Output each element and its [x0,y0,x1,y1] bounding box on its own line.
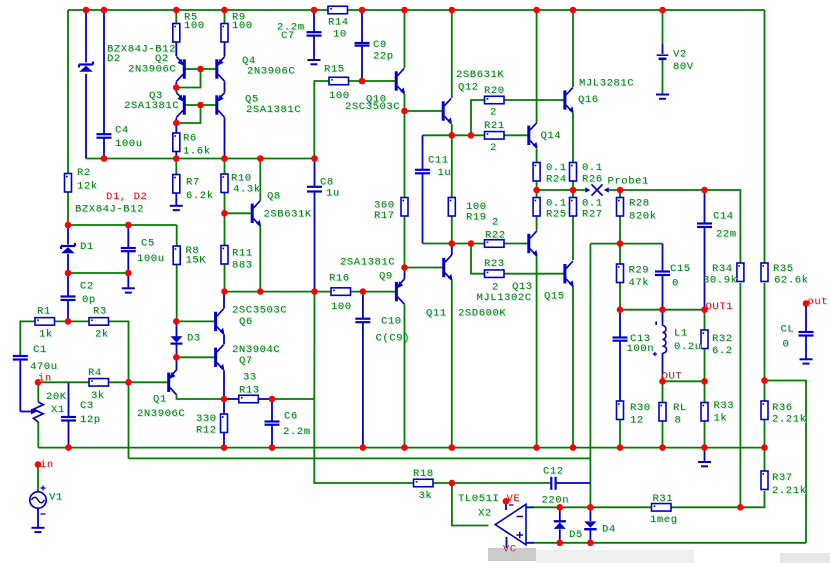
label Q4 [242,55,257,68]
resistor R18 3k [414,479,434,487]
junction top rail Q16 col [570,7,577,14]
wire C8 bottom lead [314,192,316,292]
junction top rail Q14 col [533,7,540,14]
svg-text:820k: 820k [629,211,657,223]
wire R17 column [404,111,406,198]
svg-text:2SA1381C: 2SA1381C [246,104,301,116]
resistor R8 15K [173,246,180,265]
wire Q14 collector to top rail [536,10,538,123]
svg-text:2N3906C: 2N3906C [128,64,176,76]
label C2 [80,281,95,294]
svg-text:0: 0 [672,277,679,289]
svg-text:C7: C7 [281,30,295,42]
junction rail1 Q11 [449,444,456,451]
label C1 [33,344,48,357]
svg-text:330: 330 [196,413,217,425]
label 15K [186,255,208,268]
resistor R32 6.2 [701,330,708,349]
wire R1 right to R3 left [55,320,90,322]
label R25 [546,209,568,222]
label D2 [107,53,122,66]
svg-text:C11: C11 [428,154,449,166]
svg-text:R11: R11 [232,247,253,259]
label C8 [320,177,335,190]
wire Q6 base wire [177,320,215,322]
label C11 [428,154,450,167]
svg-text:R6: R6 [183,133,197,145]
label R7 [186,176,201,189]
op-amp X2 TL051I [495,504,534,545]
wire row y=243.6 R29 C15 [590,243,662,245]
svg-text:R34: R34 [712,263,733,275]
wire X1 wiper [20,411,31,413]
label 2.21k [772,414,808,427]
label R17 [374,210,396,223]
label D5 [569,529,584,542]
resistor RL 8 [659,403,666,422]
label Q7 [239,355,254,368]
resistor R4 3k [89,379,109,387]
resistor R36 2.21k [761,401,768,420]
wire C10 top lead [362,292,364,318]
wire node row y=225 [68,224,177,226]
wire D2 lower lead to rail2 [85,74,87,159]
wire C9 top lead [361,10,363,43]
junction Q3 Q5 bases [197,102,204,109]
junction top rail Q10 col [401,7,408,14]
junction C10 R16 row [360,288,367,295]
wire Q7 base wire [177,356,215,358]
wire R33 top lead [704,381,706,402]
resistor R28 820k [617,198,624,217]
junction rail1 Q9 [401,444,408,451]
wire base jumper to Q2 collector [176,69,200,88]
label 22m [716,228,738,241]
source V1 sine [30,486,46,515]
svg-text:0.1: 0.1 [582,162,603,174]
wire R3 column to rail2 [128,382,130,458]
diode D5 [554,521,566,529]
label Q16 [578,94,600,107]
inductor L1 0.2u [653,322,667,357]
junction Q10 emitter Q12 base [401,108,408,115]
svg-text:C1: C1 [33,344,47,356]
junction in2 node [35,461,42,468]
wire R23 left lead up [471,244,485,274]
wire row y=135 C11 branch [423,134,485,136]
resistor R10 4.3k [221,174,228,193]
label R37 [772,472,794,485]
wire feedback column to R18 row [314,399,413,483]
transistor Q11 2SD600K [444,255,453,281]
junction rail1 R30 [617,444,624,451]
wire C6 bottom lead [271,425,273,448]
svg-text:Q1: Q1 [153,394,167,406]
resistor R14 10 [328,6,348,14]
junction rail1 RL [659,444,666,451]
svg-text:Q8: Q8 [267,191,281,203]
junction C8 R16 row [311,288,318,295]
wire Q2 collector to Q3 emitter [175,82,177,92]
junction R28 R29 node [617,240,624,247]
svg-text:R15: R15 [324,64,345,76]
capacitor C5 100u [121,248,136,251]
label R11 [232,247,254,260]
label MJL1302C [477,292,533,305]
wire R2 bottom to node row [67,192,69,225]
label 1k [714,413,729,426]
label R20 [484,85,506,98]
capacitor C8 1u [307,187,322,192]
wire R37 bottom to R31 row [740,491,764,507]
label 80V [673,61,695,74]
resistor R12 330 [221,414,228,433]
wire R21 right to Q14 base [504,134,528,136]
label R33 [714,400,736,413]
junction opamp VE [503,498,510,505]
label 12 [630,415,645,428]
wire R7 top lead [175,159,177,175]
label 12p [80,414,102,427]
junction Q2 Q4 bases [197,66,204,73]
net label D1 D2 red [106,191,148,204]
svg-text:470u: 470u [30,361,58,373]
wire sense row to R34 column [705,190,741,263]
svg-text:OUT: OUT [662,371,683,383]
wire out node to CL [805,304,807,332]
svg-text:12p: 12p [80,414,101,426]
label 360 [374,200,396,213]
label R2 [77,167,92,180]
svg-text:in: in [38,372,52,384]
svg-text:R13: R13 [239,385,260,397]
label Q1 [153,394,168,407]
label 2N3906C [247,66,296,79]
svg-text:R24: R24 [546,173,567,185]
junction rail2 C8 [311,155,318,162]
svg-text:2.21k: 2.21k [772,414,807,426]
label L1 [674,328,689,341]
label 2 [492,282,500,295]
wire Q6 collector up to R16 row [223,292,225,309]
ground below R7 [170,206,183,210]
junction OUT R32 R33 [701,378,708,385]
svg-text:V1: V1 [49,491,63,503]
svg-text:100: 100 [232,20,253,32]
label R8 [186,245,201,258]
ground below V2 [656,95,669,99]
label C12 [543,466,565,479]
junction R28 sense row [617,187,624,194]
transistor Q5 2SA1381C [217,92,225,117]
junction D4 bottom [587,540,594,547]
svg-text:out: out [808,296,829,308]
wire R1 left lead to C1 [20,321,35,355]
junction Q3 collector R6 [173,120,180,127]
label 470u [30,361,59,374]
label R30 [630,402,652,415]
svg-text:R10: R10 [231,172,252,184]
label R35 [773,263,795,276]
label 22p [373,51,395,64]
wire D5 bottom lead [559,529,561,543]
label R9 [232,12,247,25]
capacitor C13 100n [613,338,628,341]
label R22 [485,230,507,243]
junction rail2 Q8 emitter [257,155,264,162]
svg-text:RL: RL [673,402,687,414]
svg-text:C6: C6 [284,411,298,423]
wire R8 top lead [176,225,178,246]
wire Q3 collector to R6 [175,118,177,133]
label 0 [783,338,791,351]
label D1 [80,241,95,254]
svg-text:1u: 1u [438,167,452,179]
junction rail2 R10 [221,155,228,162]
wire R3 right lead down [109,321,129,382]
wire X1 bottom to ground rail [37,422,39,448]
wire R27 top lead [572,190,574,198]
junction R12 R13 [221,396,228,403]
wire C15 top lead [662,244,664,271]
ground on rail below R33 column [698,462,711,466]
label 100 [331,301,353,314]
svg-text:220n: 220n [542,494,570,506]
svg-text:Q14: Q14 [541,130,562,142]
svg-text:D5: D5 [569,529,583,541]
resistor R34 30.9k [737,263,744,282]
label R12 [196,425,218,438]
svg-text:Q16: Q16 [578,94,599,106]
svg-text:2: 2 [490,107,497,119]
wire Q8 emitter up to rail2 [259,159,261,201]
label 100n [627,343,656,356]
label Q10 [366,94,388,107]
wire R27 bottom to Q15 collector [572,216,574,260]
label 2SB631K [264,209,313,222]
label 4.3k [233,184,262,197]
port label in lower [40,459,55,472]
wire R15 left lead down to rail2 [314,81,329,159]
wire R5 top lead [175,10,177,24]
label 100 [329,90,351,103]
junction R26 R27 sense [570,187,577,194]
svg-text:R18: R18 [413,468,434,480]
label 820k [629,211,658,224]
wire C5 ground stem [127,273,129,288]
wire top supply rail right section [348,9,765,11]
resistor R5 100 [173,24,180,43]
svg-text:Q11: Q11 [426,308,447,320]
wire Q11 emitter down to ground rail [451,280,453,447]
wire R24 bottom to sense row [536,181,538,190]
svg-text:R31: R31 [653,493,674,505]
zener diode D2 BZX84J-B12 [79,62,93,72]
svg-text:TL051I: TL051I [458,493,499,505]
wire Q11 collector up [451,244,453,255]
label TL051I [458,493,500,506]
wire opamp VE pin [505,501,507,510]
wire R31 right lead [671,506,740,508]
capacitor C11 1u [415,170,430,174]
svg-text:1.6k: 1.6k [183,145,211,157]
resistor R21 2 [485,132,505,140]
junction R11 bottom R16 row [221,288,228,295]
svg-text:Q6: Q6 [239,316,253,328]
wire C3 top lead [68,382,70,416]
wire C8 top lead [314,159,316,187]
wire column x=590 to R31 row [589,483,591,507]
junction R24 R25 sense [533,187,540,194]
svg-text:R4: R4 [88,367,102,379]
svg-text:R19: R19 [466,212,487,224]
svg-text:12k: 12k [77,181,98,193]
svg-text:R36: R36 [772,402,793,414]
transistor Q14 [529,123,538,149]
wire V2 battery top [662,44,664,54]
junction OUT1 C13 [617,306,624,313]
junction OUT1 R32 [701,306,708,313]
svg-text:100u: 100u [137,253,165,265]
wire R13 right lead [258,398,272,400]
wire R22 right to Q13 base [504,243,528,245]
junction Q8 collector R16 row [257,288,264,295]
svg-text:R33: R33 [714,400,735,412]
label R31 [653,493,675,506]
label 330 [196,413,218,426]
svg-text:30.9k: 30.9k [703,274,738,286]
ground below CL [800,359,813,363]
label V1 [49,491,64,504]
label R23 [484,258,506,271]
label R21 [484,120,506,133]
wire Q2 Q4 base pair row [186,68,217,70]
wire R13 row to corner [272,398,314,400]
label R4 [88,367,103,380]
wire RL bottom lead [662,421,664,448]
wire R25 top lead [536,190,538,198]
label 0.2u [674,341,703,354]
wire R25 bottom to Q13 collector [536,216,538,231]
wire Q1 collector lead [176,357,178,370]
wire sense row left [537,189,585,191]
transistor Q6 2SC3503C [216,309,225,335]
svg-text:C2: C2 [80,281,94,293]
junction Q9 emitter node [401,264,408,271]
label C15 [670,263,692,276]
label 2SC3503C [345,101,401,114]
svg-text:R23: R23 [484,258,505,270]
label 62.6k [774,274,810,287]
label C(C9) [376,332,412,345]
wire L1 top lead [662,310,664,326]
wire Q10 emitter to Q12 base node [404,94,406,111]
port label out [808,296,830,309]
label R36 [772,402,794,415]
junction top rail Q12 col [449,7,456,14]
transistor Q8 2SB631K [252,201,261,227]
resistor R24 0.1 [533,163,540,182]
svg-text:R27: R27 [582,209,603,221]
wire C11 bottom lead [422,174,424,244]
junction rail2 C4 [101,155,108,162]
junction D5 bottom [557,540,564,547]
svg-text:OUT1: OUT1 [706,301,734,313]
resistor R29 47k [617,264,624,283]
wire C5 top lead [127,225,129,248]
label X1 [51,404,66,417]
wire C12 node to C12 left plate [452,482,551,484]
svg-text:8: 8 [675,415,682,427]
svg-text:2: 2 [492,217,499,229]
label 2SB631K [456,69,505,82]
wire R15 right to Q10 base [349,80,396,82]
label 100 [184,20,206,33]
transistor Q4 2N3906C [217,56,225,81]
wire Q16 emitter to R26 [572,113,574,163]
wire R8 bottom to Q6 base node [176,264,178,321]
svg-text:1k: 1k [39,329,53,341]
svg-text:100: 100 [184,20,205,32]
svg-text:6.2: 6.2 [712,345,733,357]
svg-text:R1: R1 [37,306,51,318]
svg-text:2.2m: 2.2m [283,426,311,438]
label RL [673,402,688,415]
svg-text:1k: 1k [714,413,728,425]
capacitor C15 0 [655,272,670,276]
label R6 [183,133,198,146]
wire R28 top lead [619,190,621,198]
label R29 [629,265,651,278]
label 100u [137,253,166,266]
wire feedback column x=314 down [313,292,315,399]
wire R33 bottom lead [704,421,706,448]
junction in node [35,379,42,386]
resistor R25 0.1 [533,198,540,217]
junction R35 R36 divider [761,377,768,384]
wire node row y=273 [68,272,128,274]
label C5 [141,237,156,250]
wire Q1 emitter to R13 row [177,395,225,399]
label 20K [46,391,68,404]
wire R36 top lead [764,381,766,402]
wire R37 top lead [764,448,766,471]
label R27 [582,209,604,222]
label C9 [373,39,388,52]
label V2 [673,49,688,62]
wire sense row right [609,189,705,191]
supply label VE [507,493,522,506]
wire in2 node to V1 [37,465,39,493]
svg-text:VE: VE [507,493,521,505]
wire R29 top lead [619,244,621,264]
wire column x=590 to C12 corner [589,458,591,483]
svg-text:2k: 2k [95,329,109,341]
wire Q12 collector down [451,124,453,135]
wire divider node to right border [765,381,807,543]
svg-text:47k: 47k [629,277,650,289]
wire R16 row left [224,291,331,293]
transistor Q13 MJL1302C [529,231,538,257]
wire Q1 base wire [129,381,168,383]
wire OUT1 row [620,309,705,311]
resistor R30 12 [617,401,624,420]
label 3k [419,490,434,503]
junction node row 273 C5 [125,270,132,277]
label C6 [284,411,299,424]
label 1k [39,329,54,342]
junction node row 225 C5 [125,222,132,229]
